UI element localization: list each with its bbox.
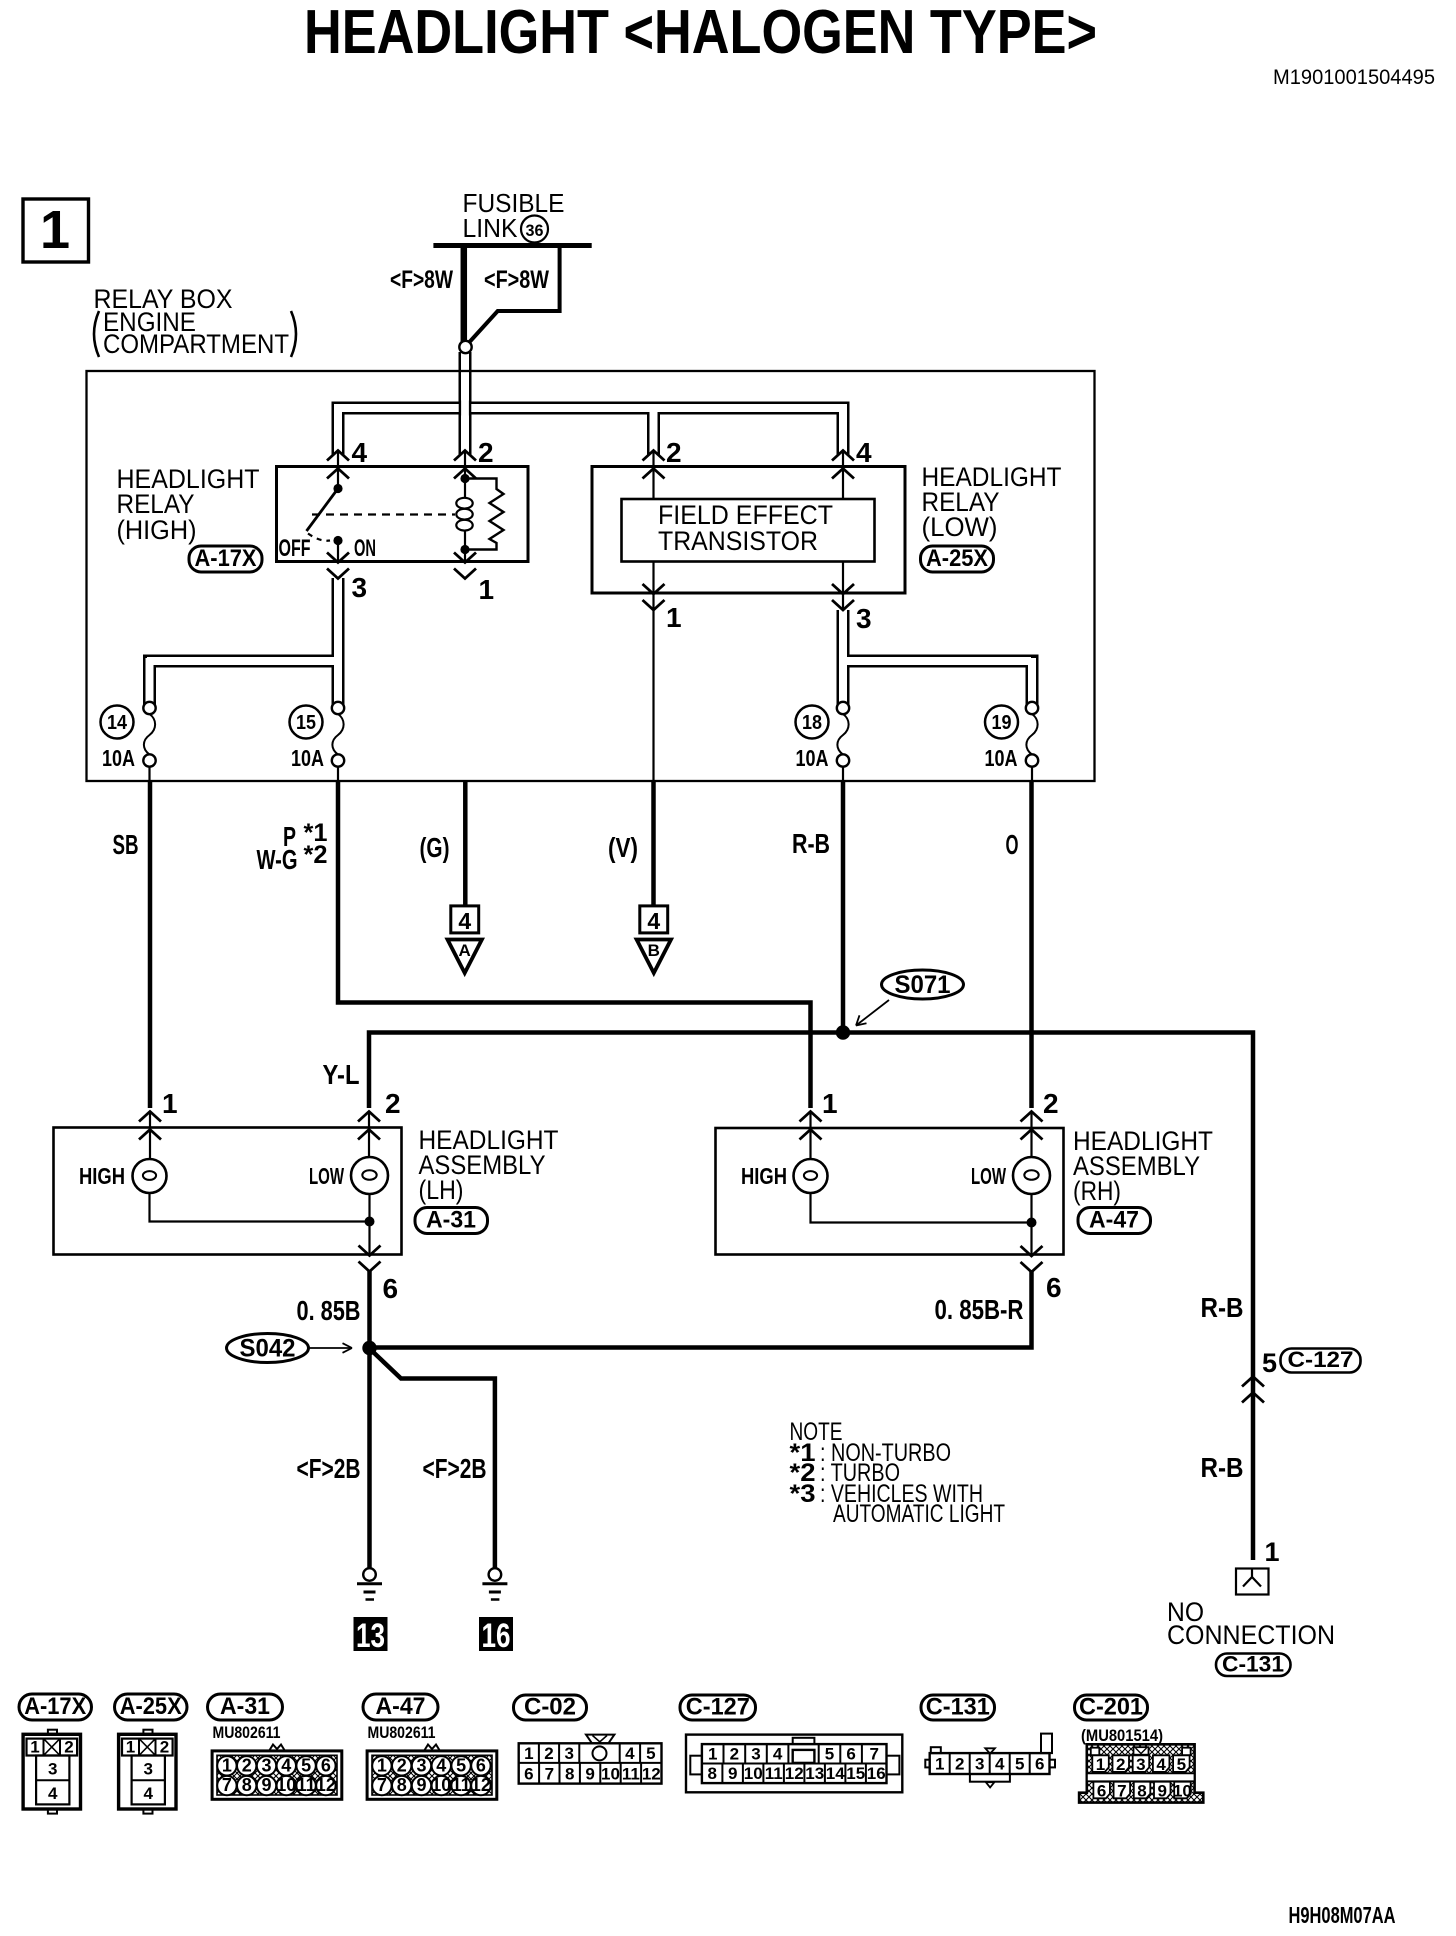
drawing number H9H08M07AA [1289,1902,1396,1928]
fuse 14 [101,702,156,781]
svg-text:A-17X: A-17X [195,545,257,572]
svg-text:(MU801514): (MU801514) [1081,1726,1163,1745]
note block [790,1418,1006,1528]
svg-text:1: 1 [708,1745,717,1764]
svg-text:COMPARTMENT: COMPARTMENT [103,329,289,359]
relay high pin 1 arrow [454,553,476,579]
svg-text:13: 13 [805,1764,824,1783]
svg-text:7: 7 [222,1775,232,1795]
svg-text:1: 1 [822,1088,838,1119]
relay low pin 2 internal wire [652,451,654,500]
svg-text:3: 3 [48,1760,57,1779]
relay low pin 1 wire [652,562,654,782]
relay high switch [307,451,456,562]
LH high beam bulb [79,1112,167,1194]
RH pin 2 arrow [1021,1112,1043,1140]
LH pin 1 label [162,1088,178,1119]
svg-text:16: 16 [482,1617,511,1655]
svg-text:4: 4 [436,1755,446,1775]
svg-text:1: 1 [1265,1537,1280,1567]
svg-text:MU802611: MU802611 [213,1723,281,1742]
fusible link wire F8W left [461,246,468,343]
svg-text:4: 4 [773,1745,783,1764]
switch label ON [354,535,376,562]
wire low beam feed Y-L to C-127 [323,1033,1254,1561]
headlight assembly LH label [419,1125,559,1205]
svg-text:8: 8 [242,1775,252,1795]
svg-text:2: 2 [397,1755,407,1775]
svg-text:5: 5 [825,1745,834,1764]
svg-text:14: 14 [107,712,128,734]
svg-text:10: 10 [431,1775,451,1795]
connector A-47 footer label [363,1693,438,1720]
svg-text:12: 12 [785,1764,804,1783]
headlight relay low label [922,462,1062,542]
svg-text:S042: S042 [240,1335,296,1363]
connector A-47 part number MU802611 [368,1723,436,1742]
wire label F2B left [297,1453,361,1484]
fusible link bar [433,243,591,248]
svg-text:19: 19 [992,712,1012,734]
svg-text:12: 12 [316,1775,336,1795]
svg-text:6: 6 [1035,1755,1044,1774]
pin 3 label [856,603,872,634]
svg-text:TRANSISTOR: TRANSISTOR [658,526,818,556]
connector A-25X pinout [119,1730,176,1814]
svg-text:5: 5 [1262,1348,1277,1378]
svg-text:7: 7 [377,1775,387,1795]
svg-text:7: 7 [1117,1782,1126,1801]
pin 3 label [352,572,368,603]
svg-text:(RH): (RH) [1073,1176,1121,1206]
connector C-201 footer label [1075,1694,1148,1721]
svg-text:3: 3 [352,572,368,603]
svg-text:(V): (V) [608,832,638,863]
RH pin 6 arrow [1021,1246,1043,1272]
headlight assembly RH label [1073,1126,1213,1206]
pin 4 label [856,437,872,468]
svg-text:HIGH: HIGH [741,1163,787,1189]
svg-text:(G): (G) [420,832,450,863]
connector C-201 part number MU801514 [1081,1726,1163,1745]
svg-text:10: 10 [601,1765,620,1784]
RH low beam bulb [971,1112,1050,1195]
svg-text:11: 11 [765,1764,783,1783]
splice S071 [836,970,964,1040]
svg-text:A-47: A-47 [376,1693,426,1720]
connector A-17X footer label [19,1693,92,1720]
relay high coil suppression resistor [460,479,503,562]
connector C-131 footer label [921,1694,995,1721]
wire G [420,781,466,906]
headlight assembly LH box [54,1128,402,1255]
svg-text:(LH): (LH) [419,1175,464,1205]
connector C-127 pin 5 inline [1242,1347,1361,1403]
svg-text:<F>2B: <F>2B [423,1453,487,1484]
wire label F8W right [484,266,549,294]
svg-text:1: 1 [377,1755,387,1775]
wire hollow bus black layer [143,352,1039,705]
svg-text:6: 6 [846,1745,855,1764]
svg-text:14: 14 [826,1764,845,1783]
svg-text:9: 9 [416,1775,426,1795]
fuse 19 [985,702,1039,781]
svg-text:36: 36 [526,221,544,240]
relay low pin 4 arrow [832,451,854,479]
svg-text:1: 1 [524,1744,533,1763]
connector C-02 pinout [519,1735,662,1784]
svg-text:A: A [459,941,471,960]
wire V [608,781,654,906]
svg-text:W-G: W-G [257,844,298,875]
svg-text:R-B: R-B [1201,1292,1244,1323]
svg-text:8: 8 [707,1764,716,1783]
LH pin 2 arrow [358,1112,380,1140]
connector ref A-17X [189,545,262,572]
svg-text:2: 2 [64,1738,73,1757]
svg-text:A-47: A-47 [1089,1207,1139,1234]
relay low pin 1 arrow [643,584,665,610]
relay low pin 4 internal wire [842,451,844,500]
svg-text:10A: 10A [291,745,324,771]
svg-text:2: 2 [385,1088,401,1119]
svg-text:13: 13 [356,1617,385,1655]
svg-text:A-31: A-31 [426,1207,476,1234]
wire SB [113,781,151,1108]
svg-text:3: 3 [261,1755,271,1775]
svg-text:O: O [1006,829,1019,860]
svg-text:<F>8W: <F>8W [390,266,453,294]
svg-text:C-127: C-127 [686,1694,750,1721]
connector A-31 pinout [212,1745,342,1800]
connector circle at fusible link junction [459,341,471,353]
svg-text:OFF: OFF [279,535,311,562]
svg-text:*2: *2 [304,841,328,869]
relay high pin 4 arrow [327,451,349,479]
svg-text:8: 8 [397,1775,407,1795]
svg-text:*3: *3 [790,1480,816,1508]
relay box engine compartment outline [87,371,1095,781]
wire O from fuse 19 [1006,781,1032,1108]
svg-text:2: 2 [955,1755,964,1774]
relay low pin 2 arrow [643,451,665,479]
svg-text:4: 4 [856,437,872,468]
fuse 15 [290,702,345,781]
svg-text:12: 12 [642,1765,661,1784]
svg-text:3: 3 [856,603,872,634]
ground 16 [479,1568,513,1655]
svg-text:4: 4 [281,1755,291,1775]
svg-text:11: 11 [452,1775,471,1795]
svg-text:1: 1 [126,1738,135,1757]
svg-text:2: 2 [160,1738,169,1757]
LH internal ground wire [150,1193,375,1254]
pin 2 label [666,437,682,468]
wire label R-B lower right [1201,1452,1244,1483]
svg-text:R-B: R-B [792,828,830,859]
svg-text:9: 9 [1157,1782,1166,1801]
wire 0.85B-R from RH pin 6 [370,1271,1032,1348]
LH pin 2 label [385,1088,401,1119]
svg-text:1: 1 [162,1088,178,1119]
title HEADLIGHT HALOGEN TYPE [304,0,1097,67]
svg-text:1: 1 [30,1738,39,1757]
relay low pin 3 arrow [832,584,854,610]
terminal B pin 4 [637,906,671,973]
svg-text:A-17X: A-17X [24,1693,86,1720]
svg-text:A-31: A-31 [220,1693,270,1720]
svg-text:LOW: LOW [971,1163,1006,1189]
terminal A pin 4 [448,906,482,973]
RH internal ground wire [811,1193,1037,1255]
svg-text:C-201: C-201 [1079,1694,1143,1721]
connector C-131 pinout [925,1734,1055,1788]
svg-text:R-B: R-B [1201,1452,1244,1483]
LH pin 6 label [383,1273,399,1304]
svg-text:2: 2 [1116,1755,1125,1774]
svg-text:6: 6 [524,1765,533,1784]
svg-text:12: 12 [471,1775,491,1795]
svg-text:8: 8 [565,1765,574,1784]
LH pin 6 arrow [359,1246,381,1272]
svg-text:5: 5 [646,1744,655,1763]
svg-text:3: 3 [1136,1755,1145,1774]
svg-text:0. 85B-R: 0. 85B-R [935,1294,1024,1325]
svg-text:10: 10 [1173,1782,1192,1801]
svg-text:1: 1 [222,1755,232,1775]
svg-text:<F>2B: <F>2B [297,1453,361,1484]
svg-text:10: 10 [276,1775,296,1795]
svg-text:6: 6 [476,1755,486,1775]
connector A-31 part number MU802611 [213,1723,281,1742]
pin 1 label [479,574,495,605]
svg-text:1: 1 [1096,1755,1105,1774]
svg-text:6: 6 [1097,1782,1106,1801]
fuse 18 [796,702,850,781]
svg-text:5: 5 [456,1755,466,1775]
svg-text:5: 5 [1015,1755,1024,1774]
wire label R-B upper right [1201,1292,1244,1323]
svg-text:S071: S071 [895,971,951,999]
svg-text:C-131: C-131 [1222,1652,1284,1677]
svg-text:<F>8W: <F>8W [484,266,549,294]
no connection terminal C-131 pin 1 [1167,1537,1335,1677]
connector A-31 footer label [208,1693,283,1720]
field effect transistor box U1 [622,499,875,562]
svg-text:3: 3 [751,1745,760,1764]
svg-text:3: 3 [143,1760,152,1779]
svg-text:10: 10 [744,1764,763,1783]
headlight relay high box [277,467,529,562]
ground 13 [354,1568,388,1655]
svg-text:7: 7 [869,1745,878,1764]
svg-text:16: 16 [867,1764,886,1783]
svg-text:A-25X: A-25X [120,1693,182,1720]
svg-text:10A: 10A [985,745,1018,771]
relay high coil [456,451,472,550]
svg-text:H9H08M07AA: H9H08M07AA [1289,1902,1396,1928]
svg-text:4: 4 [458,908,471,934]
svg-text:SB: SB [113,829,139,860]
svg-text:2: 2 [544,1744,553,1763]
svg-text:3: 3 [564,1744,573,1763]
switch label OFF [279,535,311,562]
RH high beam bulb [741,1112,828,1194]
connector C-201 pinout [1079,1744,1203,1802]
sheet number 1 box [23,199,89,262]
relay box label [94,284,297,359]
svg-text:5: 5 [1177,1755,1186,1774]
svg-text:2: 2 [478,437,494,468]
svg-text:C-02: C-02 [524,1694,576,1721]
svg-text:ON: ON [354,535,376,562]
svg-text:6: 6 [1046,1272,1062,1303]
connector C-127 pinout [686,1735,902,1793]
connector A-17X pinout [23,1730,80,1814]
svg-text:4: 4 [48,1784,58,1803]
connector C-127 footer label [680,1694,756,1721]
svg-text:C-131: C-131 [926,1694,990,1721]
relay high pin 3 arrow [327,553,349,579]
svg-text:4: 4 [143,1784,153,1803]
svg-text:4: 4 [1156,1755,1166,1774]
splice S042 [227,1334,377,1363]
svg-text:4: 4 [995,1755,1005,1774]
LH pin 1 arrow [139,1112,161,1140]
connector A-25X footer label [115,1693,188,1720]
svg-text:HEADLIGHT <HALOGEN TYPE>: HEADLIGHT <HALOGEN TYPE> [304,0,1097,67]
fusible link flag F8W right [470,246,560,343]
svg-text:9: 9 [261,1775,271,1795]
relay low pin 3 internal wire [842,562,844,609]
wire hollow junction vertical edges at bus crossing [460,401,470,416]
wire P W-G to RH high [257,781,811,1108]
svg-text:9: 9 [728,1764,737,1783]
svg-text:1: 1 [479,574,495,605]
svg-text:10A: 10A [102,745,135,771]
svg-text:11: 11 [622,1765,640,1784]
RH pin 6 label [1046,1272,1062,1303]
pin 2 label [478,437,494,468]
svg-text:AUTOMATIC LIGHT: AUTOMATIC LIGHT [833,1500,1005,1528]
svg-text:2: 2 [1043,1088,1059,1119]
headlight assembly RH box [716,1128,1064,1255]
connector C-02 footer label [514,1694,587,1721]
wire label F2B right [423,1453,487,1484]
svg-text:3: 3 [416,1755,426,1775]
svg-text:CONNECTION: CONNECTION [1167,1620,1335,1650]
svg-text:M1901001504495: M1901001504495 [1273,66,1435,89]
svg-text:A-25X: A-25X [926,545,988,572]
connector ref A-31 [415,1207,488,1234]
svg-text:4: 4 [647,908,660,934]
wire label F8W left [390,266,453,294]
svg-text:6: 6 [321,1755,331,1775]
svg-text:1: 1 [935,1755,944,1774]
svg-text:LOW: LOW [309,1163,344,1189]
svg-text:5: 5 [301,1755,311,1775]
svg-text:18: 18 [802,712,822,734]
svg-text:LINK: LINK [463,213,519,243]
RH pin 1 label [822,1088,838,1119]
connector ref A-25X [921,545,994,572]
wire 0.85B from LH pin 6 to ground [297,1271,370,1568]
svg-text:10A: 10A [796,745,829,771]
svg-text:6: 6 [383,1273,399,1304]
svg-text:Y-L: Y-L [323,1059,360,1090]
pin 4 label [352,437,368,468]
wire hollow white layer [147,351,1032,704]
svg-text:15: 15 [846,1764,865,1783]
doc number M1901001504495 [1273,66,1435,89]
svg-text:4: 4 [352,437,368,468]
svg-text:7: 7 [545,1765,554,1784]
svg-text:9: 9 [585,1765,594,1784]
headlight relay low outer box [592,467,905,594]
RH pin 1 arrow [800,1112,822,1140]
svg-text:8: 8 [1137,1782,1146,1801]
svg-text:2: 2 [666,437,682,468]
svg-text:(LOW): (LOW) [922,512,998,542]
svg-text:1: 1 [40,200,70,260]
svg-text:HIGH: HIGH [79,1163,125,1189]
svg-text:MU802611: MU802611 [368,1723,436,1742]
svg-text:2: 2 [242,1755,252,1775]
svg-text:B: B [648,941,660,960]
pin 1 label [666,602,682,633]
svg-text:1: 1 [666,602,682,633]
svg-text:C-127: C-127 [1288,1347,1354,1372]
svg-text:3: 3 [975,1755,984,1774]
svg-text:11: 11 [297,1775,316,1795]
wire R-B from fuse 18 [792,781,843,1033]
svg-text:15: 15 [296,712,316,734]
svg-text:4: 4 [625,1744,635,1763]
svg-text:0. 85B: 0. 85B [297,1295,361,1326]
headlight relay high label [117,464,260,545]
wire branch to ground 16 [370,1349,495,1568]
svg-text:2: 2 [730,1745,739,1764]
connector ref A-47 [1078,1207,1151,1234]
fusible link label [463,188,565,243]
connector A-47 pinout [367,1745,497,1800]
relay high pin 2 arrow [454,451,476,479]
svg-text:(HIGH): (HIGH) [117,515,197,545]
RH pin 2 label [1043,1088,1059,1119]
LH low beam bulb [309,1112,388,1195]
